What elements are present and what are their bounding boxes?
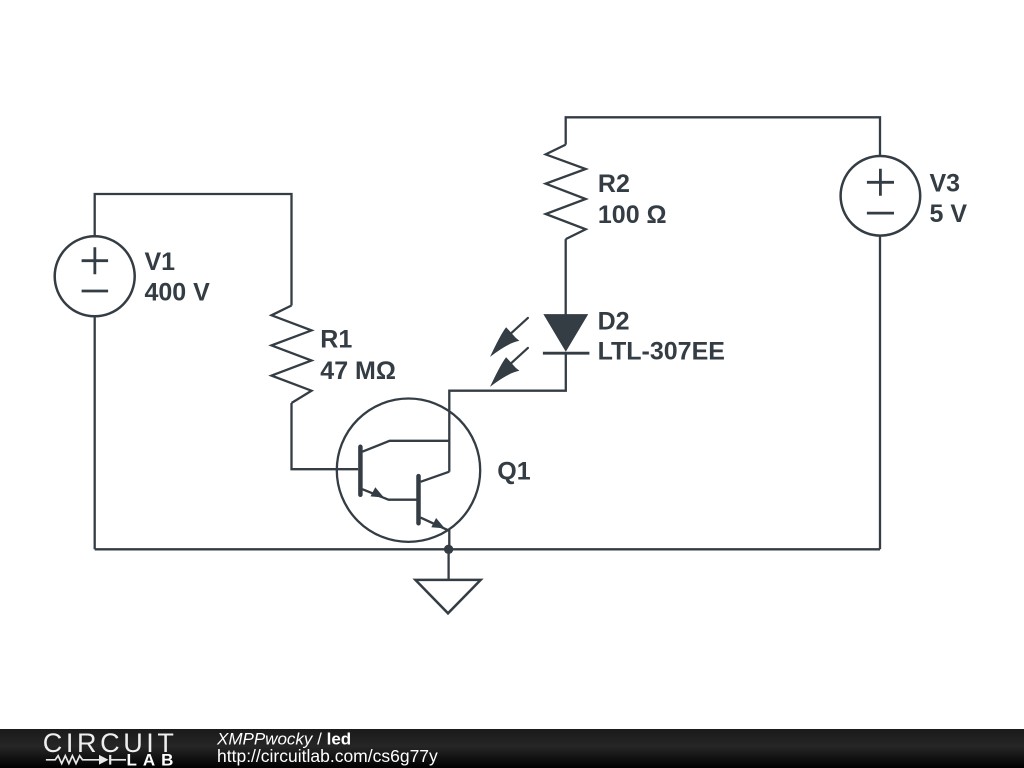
resistor R1	[272, 306, 312, 404]
label V3	[930, 170, 968, 228]
wire D2 cathode to Q1 collector	[449, 353, 566, 472]
wire bottom rail	[95, 548, 880, 550]
svg-text:5 V: 5 V	[930, 200, 968, 228]
svg-text:R1: R1	[320, 326, 352, 354]
node emitter-ground junction	[444, 545, 453, 554]
logo diode	[99, 755, 126, 765]
wire V1 bottom	[94, 316, 96, 549]
footer bar	[0, 729, 1024, 768]
logo resistor	[46, 756, 99, 764]
transistor Q1	[337, 399, 480, 550]
svg-text:400 V: 400 V	[145, 278, 211, 306]
wire V3 bottom	[879, 235, 881, 549]
wire V1 top to R1 top	[95, 194, 292, 306]
svg-text:LTL-307EE: LTL-307EE	[598, 338, 725, 366]
wire R2 bottom to D2 anode	[565, 239, 567, 315]
svg-text:V3: V3	[930, 170, 961, 198]
svg-text:100 Ω: 100 Ω	[598, 201, 667, 229]
LED D2	[490, 315, 589, 387]
svg-text:R2: R2	[598, 170, 630, 198]
wire V3 top to R2 top	[566, 117, 880, 156]
resistor R2	[546, 145, 586, 240]
svg-text:LAB: LAB	[127, 751, 180, 768]
ground	[415, 549, 480, 613]
voltage source V3	[841, 156, 921, 236]
svg-text:V1: V1	[145, 248, 176, 276]
svg-text:http://circuitlab.com/cs6g77y: http://circuitlab.com/cs6g77y	[217, 746, 438, 766]
label V1	[145, 248, 211, 306]
svg-text:D2: D2	[598, 307, 630, 335]
wire R1 bottom to Q1 base	[292, 403, 359, 469]
label D2	[598, 307, 725, 365]
svg-text:Q1: Q1	[497, 458, 530, 486]
label R2	[598, 170, 667, 229]
voltage source V1	[55, 236, 135, 316]
svg-text:47 MΩ: 47 MΩ	[320, 357, 396, 385]
label R1	[320, 326, 396, 385]
